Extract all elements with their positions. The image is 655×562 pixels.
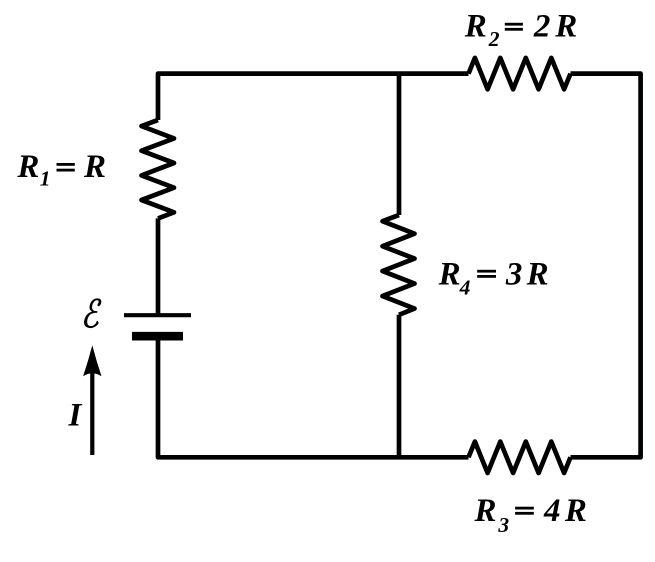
- svg-text:1: 1: [40, 167, 51, 191]
- wire top: left branch top + top wire with junction at node x=399: [158, 74, 469, 120]
- current arrow I shaft: [90, 372, 94, 455]
- svg-text:I: I: [68, 397, 83, 433]
- battery EMF top plate (long thin positive): [124, 313, 191, 317]
- wire middle branch lower: R4 down to junction on bottom wire: [397, 315, 402, 458]
- wire: battery to bottom-left corner, bottom wire to R3 with junction at x=399: [158, 336, 469, 457]
- svg-text:2: 2: [533, 9, 551, 45]
- svg-text:3: 3: [497, 513, 509, 537]
- wire right: R2 to top-right corner, right branch, bottom-right corner to R3: [571, 74, 641, 458]
- wire middle branch upper: junction on top wire down to R4: [397, 74, 402, 215]
- svg-text:R: R: [16, 149, 39, 185]
- svg-text:R: R: [564, 493, 587, 529]
- resistor R1: [142, 120, 175, 218]
- svg-text:4: 4: [459, 275, 471, 299]
- label R3 = 4R: [474, 493, 587, 537]
- svg-text:R: R: [83, 149, 106, 185]
- svg-text:4: 4: [543, 493, 561, 529]
- resistor R4: [383, 215, 415, 315]
- wire: R1 bottom to battery top plate: [156, 218, 161, 315]
- label R2 = 2R: [464, 9, 578, 51]
- svg-text:R: R: [438, 257, 461, 293]
- svg-text:R: R: [554, 9, 577, 45]
- svg-text:R: R: [526, 257, 549, 293]
- label R1 = R: [16, 149, 106, 190]
- svg-text:3: 3: [505, 257, 523, 293]
- svg-text:R: R: [474, 493, 497, 529]
- label R4 = 3R: [438, 257, 549, 300]
- label EMF (script E): [84, 299, 101, 328]
- resistor R3: [469, 442, 571, 473]
- resistor R2: [469, 58, 571, 89]
- battery EMF bottom plate (short thick negative): [132, 332, 183, 341]
- svg-text:2: 2: [488, 27, 500, 51]
- svg-text:R: R: [464, 9, 487, 45]
- current arrow I head: [83, 345, 101, 376]
